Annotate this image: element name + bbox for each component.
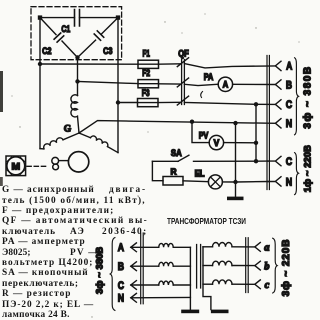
wire primary row C (131, 284, 159, 286)
terminal A (275, 61, 292, 73)
shaft dash pulley to flywheel (59, 160, 67, 162)
flywheel (68, 152, 88, 172)
ground electrode (227, 197, 244, 201)
transformer primary winding A (159, 243, 173, 247)
node C bus tap (116, 100, 120, 104)
wire QF output A to terminal (184, 64, 275, 68)
wire secondary row b to terminal (232, 265, 255, 267)
motor M (6, 156, 26, 176)
wire SA left leg down to R (152, 161, 163, 180)
capacitor C1 (75, 10, 80, 27)
wire secondary row c to terminal (232, 283, 255, 285)
wire phase C vertical from capacitor bank (117, 18, 119, 153)
node A bus tap (38, 62, 42, 66)
node N to PV dropper (190, 120, 194, 124)
wire secondary star stem (203, 247, 211, 310)
terminal b (255, 261, 270, 272)
ammeter PA (204, 72, 233, 92)
terminal a (255, 243, 270, 254)
terminal N (275, 118, 292, 130)
terminal C (275, 99, 292, 111)
wire primary row C to star (173, 284, 190, 286)
bracket 380V group (295, 58, 299, 135)
wire ammeter to terminal B (233, 83, 276, 85)
terminal N transformer (118, 293, 137, 305)
node EL line at ground dropper (233, 180, 237, 184)
node C line to PV dropper (254, 102, 258, 106)
wire primary row A to star (173, 246, 190, 248)
terminal C 220V (268, 156, 292, 168)
wire C dropper to PV and SA (255, 104, 257, 161)
node SA line at C dropper (254, 159, 258, 163)
terminal A transformer (118, 242, 137, 254)
wire secondary row a to terminal (232, 246, 255, 248)
node B bus tap (75, 79, 79, 83)
node N to ground dropper (233, 121, 237, 125)
bracket transformer input group (110, 238, 115, 311)
wire R to EL (183, 180, 208, 183)
bracket 220V group (295, 153, 299, 195)
terminal N 220V (268, 176, 292, 188)
wire top side of delta (40, 17, 118, 19)
capacitor C3 (94, 31, 104, 40)
wire primary row B (131, 265, 159, 267)
terminal C transformer (118, 280, 137, 292)
fuse F3 (138, 88, 159, 107)
ground electrode transformer primary (181, 310, 199, 314)
terminal B transformer (118, 261, 137, 273)
wire primary row B to star (173, 265, 190, 267)
wire ground dropper (235, 123, 237, 197)
wire secondary row b (203, 265, 213, 267)
wire SA to C dropper and 220V C terminal (194, 160, 269, 162)
wire neutral row N to star stem (131, 296, 191, 298)
node PV at C dropper (254, 141, 258, 145)
coupling small pulley lower (53, 164, 59, 170)
fuse F1 (138, 49, 159, 69)
wire bus A to QF (40, 63, 180, 65)
scan smudge left edge (0, 71, 3, 112)
circuit breaker QF (177, 48, 189, 105)
transformer primary winding B (159, 262, 173, 266)
capacitor C2 (54, 33, 64, 42)
ground electrode transformer secondary (211, 310, 229, 314)
wire EL to 220V N terminal (222, 181, 268, 184)
transformer secondary winding b (213, 261, 233, 265)
stray pen mark (201, 92, 203, 98)
node top-right of capacitor bank (116, 15, 120, 19)
resistor R (163, 167, 183, 185)
transformer core (197, 245, 201, 289)
bracket transformer output group (273, 238, 278, 293)
terminal c (255, 280, 270, 291)
panel bus bars right (380V group) (267, 56, 269, 190)
wire QF output C to terminal (184, 102, 275, 104)
switch SA (152, 148, 189, 161)
node delta bottom vertex (75, 55, 79, 59)
wire right diagonal of delta (78, 18, 119, 58)
shaft dashed link motor to pulleys (27, 165, 49, 167)
voltmeter PV (199, 131, 224, 150)
coupling small pulley upper (52, 157, 59, 164)
generator G winding phase C coil leg (79, 133, 118, 153)
wire secondary row a (203, 246, 213, 248)
panel bus bars transformer input (141, 233, 144, 304)
node top-left of capacitor bank (38, 15, 42, 19)
capacitor bank dashed enclosure (31, 7, 122, 60)
wire primary star stem to ground (189, 247, 191, 309)
wire left diagonal of delta (40, 18, 78, 58)
wire N dropper to PV (192, 122, 209, 143)
wire primary row A (131, 246, 159, 248)
wire bus C to QF (118, 101, 180, 103)
transformer primary winding C (159, 281, 173, 285)
wire bus B to QF (78, 81, 181, 84)
wire phase B vertical from delta bottom (77, 58, 79, 96)
generator G winding phase B coil (71, 95, 79, 133)
wire PV to C dropper (224, 142, 256, 144)
panel bus bars transformer output (246, 238, 249, 293)
transformer secondary winding c (213, 280, 233, 284)
wire secondary row c (203, 283, 213, 285)
lamp EL (195, 168, 223, 189)
fuse F2 (138, 68, 159, 88)
transformer secondary winding a (213, 243, 233, 247)
wire phase A vertical from capacitor bank (39, 18, 41, 149)
wire QF output B to ammeter (184, 84, 218, 85)
generator G winding phase A coil leg (40, 133, 79, 149)
wire neutral from generator star point (79, 121, 275, 133)
terminal B (275, 79, 292, 91)
